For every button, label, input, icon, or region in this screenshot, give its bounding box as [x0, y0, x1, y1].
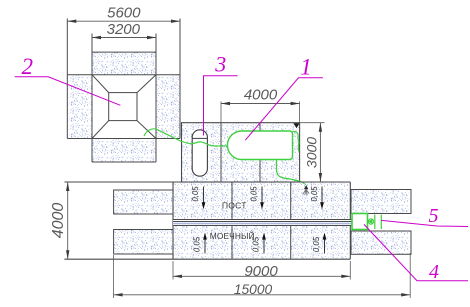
pump room wall A: [220, 123, 222, 182]
tank right edge / extension line: [179, 19, 181, 139]
tank inner rect top line: [67, 74, 180, 76]
outlet grate lines: [374, 215, 376, 230]
washing pump unit (item 1): [227, 131, 292, 160]
svg-text:3200: 3200: [107, 21, 141, 38]
dimension 15000: [113, 255, 115, 298]
pit slope line NE: [137, 75, 156, 93]
callout 1 (pump): [245, 78, 323, 140]
washing post hatched floor: [173, 182, 350, 259]
outlet valve (item 5): [368, 219, 373, 224]
pit slope line SW: [92, 121, 109, 139]
dimension 5600: [67, 20, 180, 22]
left apron strip 1: [114, 190, 173, 214]
slope arrow down with 0,05 label: [261, 187, 263, 204]
svg-text:0,05: 0,05: [191, 186, 200, 202]
tank bottom edge: [92, 161, 156, 163]
pump room wall B (behind pump): [259, 123, 261, 131]
right apron block top: [351, 190, 411, 214]
green hose from tank to pump room: [144, 129, 228, 146]
slope arrow up with 0,05 label: [324, 239, 326, 254]
green hose along right wall: [293, 131, 299, 151]
plan top boundary line: [64, 181, 350, 183]
slope arrow up with 0,05 label: [204, 239, 206, 254]
pump room outline: [182, 123, 300, 182]
svg-text:3000: 3000: [303, 137, 319, 168]
pump room hatched interior: [182, 123, 300, 182]
dimension 3200: [92, 37, 156, 39]
svg-text:0,05: 0,05: [193, 236, 202, 252]
svg-text:0,05: 0,05: [312, 236, 321, 252]
drainage channel: [173, 219, 352, 226]
hydrant / riser (item 3 capsule): [192, 130, 207, 176]
plan grid wall 1: [231, 182, 233, 259]
left apron strip 2: [114, 230, 173, 255]
pit slope line SE: [137, 121, 156, 139]
slope arrow up with 0,05 label: [263, 239, 265, 254]
svg-text:5: 5: [429, 205, 439, 227]
svg-text:МОЕЧНЫЙ: МОЕЧНЫЙ: [210, 230, 255, 241]
slope arrow down with 0,05 label: [203, 187, 205, 204]
svg-text:0,05: 0,05: [310, 186, 319, 202]
green hose to spray nozzle: [277, 160, 306, 185]
callout 2 (settling tank): [15, 77, 121, 106]
tank inner rect bottom line: [67, 138, 180, 140]
svg-text:4: 4: [429, 261, 439, 283]
callout 4 (outlet pit): [364, 224, 468, 280]
capsule chord line: [192, 137, 207, 139]
svg-text:5600: 5600: [107, 4, 141, 21]
plan grid wall 2: [290, 182, 292, 259]
outlet pit (item 4): [352, 214, 368, 230]
tank inner-left edge / extension line: [91, 34, 93, 163]
tank pit bottom square: [109, 93, 137, 121]
svg-text:0,05: 0,05: [252, 236, 261, 252]
tank hatched wall right band: [156, 75, 180, 139]
svg-text:1: 1: [300, 55, 312, 80]
dimension 4000 vertical left: [67, 182, 69, 259]
svg-text:15000: 15000: [234, 282, 273, 297]
pit slope line NW: [92, 75, 109, 93]
svg-text:4000: 4000: [50, 203, 67, 239]
svg-text:3: 3: [214, 52, 226, 77]
tank inner-right edge / extension line: [155, 34, 157, 163]
plan right edge: [349, 182, 351, 259]
spray nozzle: [304, 185, 308, 189]
right apron block bottom: [351, 231, 411, 254]
tank top edge: [92, 51, 156, 53]
tank left edge / extension line: [66, 19, 68, 139]
dimension 4000 horizontal: [220, 102, 222, 123]
callout 3 (riser): [204, 76, 238, 136]
svg-text:2: 2: [22, 54, 34, 79]
svg-text:0,05: 0,05: [250, 186, 259, 202]
tank hatched wall left band: [67, 75, 92, 139]
svg-text:9000: 9000: [244, 263, 278, 280]
callout 5 (valve): [381, 220, 468, 226]
svg-text:4000: 4000: [244, 87, 278, 104]
tank hatched wall top band: [92, 52, 156, 75]
flow arrow at wall crossing: [293, 123, 299, 128]
dimension 3000 vertical: [300, 122, 325, 124]
plan bottom boundary line: [64, 258, 350, 260]
dimension 9000: [172, 261, 174, 280]
plan left edge: [172, 182, 174, 259]
slope arrow down with 0,05 label: [321, 187, 323, 204]
tank hatched wall bottom band: [92, 139, 156, 163]
svg-text:ПОСТ: ПОСТ: [222, 200, 247, 210]
